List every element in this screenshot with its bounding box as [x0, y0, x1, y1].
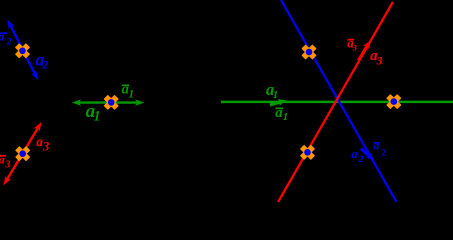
direction arrow a1 (right, green): [270, 97, 287, 106]
atom on a3 axis (left): [16, 147, 29, 160]
label a1 (right, green): [266, 80, 278, 101]
label a2 (left, blue): [36, 50, 49, 72]
svg-text:2: 2: [358, 154, 364, 165]
label a2-bar (right, blue): [374, 140, 387, 159]
label a3-bar (left, red, clipped at image edge): [0, 152, 10, 170]
direction arrow a2 (right, blue): [361, 149, 377, 164]
axis line a1 (right, green horizontal): [221, 101, 453, 104]
atom on red axis (right): [301, 146, 314, 159]
svg-text:2: 2: [380, 148, 386, 158]
svg-text:1: 1: [283, 111, 288, 123]
svg-text:2: 2: [41, 58, 48, 71]
svg-text:1: 1: [94, 108, 101, 124]
svg-text:1: 1: [128, 88, 134, 100]
label a3-bar (right, red): [347, 35, 357, 52]
svg-text:3: 3: [352, 43, 358, 53]
atom on green axis (right): [387, 95, 400, 108]
axis a3 (left, red double-headed arrow): [1, 120, 45, 187]
atom on a1 axis (left): [105, 96, 118, 109]
label a1-bar (right, green): [275, 105, 288, 123]
direction arrow a3 (right, red): [359, 39, 374, 61]
label a1 (left, green): [86, 101, 101, 124]
svg-text:a: a: [374, 140, 380, 153]
svg-text:a: a: [351, 147, 357, 161]
svg-text:1: 1: [273, 90, 278, 101]
label a2-bar (left, blue, clipped at image edge): [0, 30, 12, 48]
axis line a2 (right, blue diagonal): [281, 0, 397, 202]
atom on a2 axis (left): [16, 44, 29, 57]
svg-text:a: a: [0, 30, 5, 44]
label a2 (right, blue): [351, 147, 363, 165]
axis a1 (left, green double-headed arrow): [72, 99, 144, 106]
label a3 (left, red): [36, 134, 49, 154]
label a1-bar (left, green): [122, 81, 135, 100]
axis a2 (left, blue double-headed arrow): [5, 18, 42, 82]
svg-text:a: a: [0, 152, 5, 166]
axis line a3 (right, red diagonal): [278, 2, 393, 202]
label a3 (right, red): [370, 48, 383, 67]
svg-text:3: 3: [376, 54, 383, 67]
svg-text:3: 3: [42, 140, 49, 154]
atom on blue axis (right): [302, 45, 315, 58]
svg-text:2: 2: [6, 38, 12, 48]
svg-text:3: 3: [4, 159, 10, 170]
